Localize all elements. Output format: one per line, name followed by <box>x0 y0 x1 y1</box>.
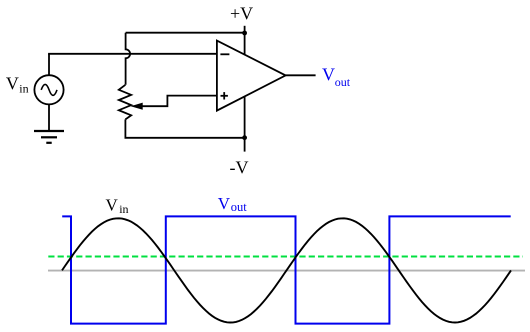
+V supply wire <box>244 26 246 55</box>
potentiometer wiper arrow <box>140 96 217 107</box>
wire source bottom to ground <box>48 104 50 131</box>
Vin sine wave black <box>62 218 511 322</box>
wire pot bottom to -V node <box>125 119 244 137</box>
wire Vin to op-amp inverting input <box>48 53 217 55</box>
wire vertical with hop over Vin wire <box>126 33 131 85</box>
label Vout <box>322 65 351 89</box>
svg-text:out: out <box>231 200 248 214</box>
svg-text:-V: -V <box>230 157 249 177</box>
node junction dot at -V <box>242 135 247 140</box>
potentiometer R1 zigzag <box>119 85 131 120</box>
output wire <box>286 74 316 76</box>
sine glyph inside source <box>41 84 57 95</box>
svg-text:V: V <box>218 194 231 213</box>
svg-text:in: in <box>19 81 28 95</box>
label Vin source <box>6 74 29 96</box>
node junction dot at +V <box>242 31 247 36</box>
svg-text:V: V <box>6 74 19 94</box>
wire top rail to +V node <box>126 32 245 34</box>
Vout square wave blue <box>62 216 511 323</box>
svg-text:V: V <box>106 196 119 215</box>
waveform label Vin <box>106 196 129 216</box>
ground <box>34 131 64 143</box>
-V supply wire <box>244 97 246 152</box>
wire source top to Vin horizontal <box>48 54 50 75</box>
op-amp U1 triangle <box>217 41 286 111</box>
op-amp plus input symbol <box>221 92 228 99</box>
threshold green dashed line <box>48 256 523 258</box>
waveform label Vout <box>218 194 248 214</box>
op-amp minus input symbol <box>220 53 229 55</box>
svg-text:V: V <box>322 65 335 85</box>
zero axis gray line <box>48 270 525 272</box>
source V1 (AC sine source) <box>34 75 63 104</box>
svg-text:in: in <box>119 202 128 216</box>
svg-text:+V: +V <box>230 3 253 23</box>
svg-text:out: out <box>335 75 351 89</box>
